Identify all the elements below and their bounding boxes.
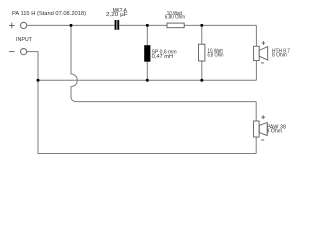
svg-text:2,20 µF: 2,20 µF xyxy=(106,12,128,18)
svg-text:6,80 Ohm: 6,80 Ohm xyxy=(165,15,185,21)
svg-text:6,8 Ohm: 6,8 Ohm xyxy=(208,52,224,58)
svg-text:8 Ohm: 8 Ohm xyxy=(267,129,283,135)
svg-text:INPUT: INPUT xyxy=(16,37,33,43)
svg-text:8 Ohm: 8 Ohm xyxy=(272,52,287,58)
svg-text:PA 115 H (Stand 07.08.2018): PA 115 H (Stand 07.08.2018) xyxy=(12,11,86,17)
svg-text:0,47 mH: 0,47 mH xyxy=(152,54,174,60)
